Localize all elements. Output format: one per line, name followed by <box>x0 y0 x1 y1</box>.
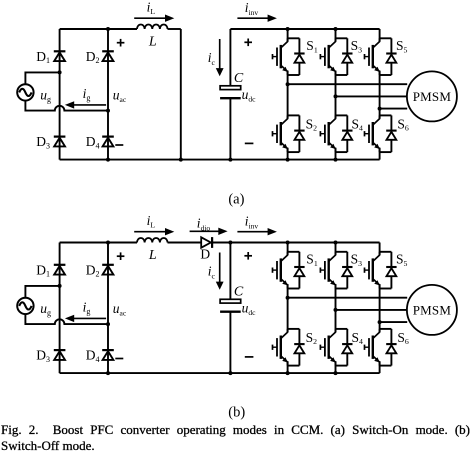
wire leg2 column top (a) <box>335 29 337 42</box>
wire leg2 column mid (a) <box>335 71 337 119</box>
svg-text:L: L <box>148 248 157 263</box>
transistor S2 IGBT with antiparallel diode (a) <box>273 115 305 152</box>
wire leg1 column bottom (a) <box>287 148 289 160</box>
node junction dot leg2 phase (b) <box>334 308 338 312</box>
node junction dot leg1 phase (b) <box>286 296 290 300</box>
wire leg1 column top (a) <box>287 29 289 42</box>
wire source bottom with hop over left column (a) <box>25 101 108 111</box>
node junction dot D4 bottom rail (a) <box>106 158 110 162</box>
wire bridge left column (a) <box>59 29 61 160</box>
node junction dot leg2 top rail (a) <box>334 27 338 31</box>
node junction dot D2 top rail (a) <box>106 27 110 31</box>
wire capacitor bottom lead (b) <box>229 312 231 373</box>
node junction dot leg1 top rail (a) <box>286 27 290 31</box>
svg-text:C: C <box>234 285 244 300</box>
wire bridge right column (b) <box>107 243 109 374</box>
wire leg1 column top (b) <box>287 243 289 256</box>
node junction dot leg2 phase (a) <box>334 94 338 98</box>
node junction dot source-top / left column (a) <box>58 70 62 74</box>
transistor S4 IGBT with antiparallel diode (a) <box>320 115 352 152</box>
current arrow i_inv (b) <box>237 231 268 233</box>
diode D1 (b) <box>54 264 66 266</box>
ac source u_g circuit (b) <box>17 298 33 314</box>
inductor L (a) <box>137 24 168 29</box>
wire leg1 column mid (b) <box>287 284 289 332</box>
wire phase b to PMSM (b) <box>336 309 408 311</box>
wire leg2 column bottom (b) <box>335 361 337 373</box>
transistor S6 IGBT with antiparallel diode (a) <box>365 115 397 152</box>
wire dc-link top rail corner (a) <box>229 29 231 86</box>
svg-text:D: D <box>200 246 210 261</box>
wire phase b to PMSM (a) <box>336 95 408 97</box>
node junction dot leg1 top rail (b) <box>286 241 290 245</box>
wire top rail diode to capacitor node (b) <box>212 242 230 244</box>
node junction dot leg2 top rail (b) <box>334 241 338 245</box>
node junction dot leg2 bottom rail (b) <box>334 371 338 375</box>
label u_ac minus (b) <box>115 358 123 360</box>
motor PMSM circle (b) <box>407 285 457 335</box>
current arrow i_L (b) <box>134 231 166 233</box>
wire leg2 column mid (b) <box>335 284 337 332</box>
inductor L (b) <box>137 238 168 243</box>
wire source top to bridge left column (a) <box>25 72 59 84</box>
transistor S3 IGBT with antiparallel diode (a) <box>320 38 352 75</box>
diode D4 (a) <box>102 136 114 138</box>
transistor S4 IGBT with antiparallel diode (b) <box>320 329 352 366</box>
wire boost-switch short vertical (a) <box>180 29 182 160</box>
diode D boost (b) <box>201 237 211 247</box>
node junction dot leg1 bottom rail (a) <box>286 158 290 162</box>
wire phase a to PMSM (b) <box>288 297 408 299</box>
svg-text:L: L <box>148 34 157 49</box>
wire leg1 column mid (a) <box>287 71 289 119</box>
wire leg2 column top (b) <box>335 243 337 256</box>
transistor S3 IGBT with antiparallel diode (b) <box>320 252 352 289</box>
wire leg3 column bottom (b) <box>379 361 381 373</box>
ac source u_g circuit (a) <box>17 84 33 100</box>
wire top rail bridge to inductor (a) <box>60 28 137 30</box>
label u_dc minus (a) <box>245 142 254 144</box>
node junction dot short / bottom rail (a) <box>179 158 183 162</box>
current arrow i_g (a) <box>73 104 106 106</box>
label u_dc minus (b) <box>245 356 254 358</box>
svg-text:(b): (b) <box>228 405 245 421</box>
node junction dot leg2 bottom rail (a) <box>334 158 338 162</box>
capacitor C bottom plate (a) <box>220 97 241 99</box>
wire source bottom with hop over left column (b) <box>25 314 108 324</box>
label u_dc plus (a) <box>244 41 252 43</box>
node junction dot capacitor / bottom rail (a) <box>228 158 232 162</box>
node junction dot leg3 phase (b) <box>378 320 382 324</box>
wire dc-link top rail (a) <box>230 28 379 30</box>
wire top rail inductor to short (a) <box>168 28 181 30</box>
diode D3 (b) <box>54 349 66 351</box>
diode D1 (a) <box>54 50 66 52</box>
wire capacitor top lead (b) <box>229 243 231 300</box>
node junction dot capacitor / bottom rail (b) <box>228 371 232 375</box>
capacitor C top plate (b) <box>220 299 241 303</box>
diode D3 (a) <box>54 136 66 138</box>
node junction dot D2 top rail (b) <box>106 241 110 245</box>
diode D2 (b) <box>102 264 114 266</box>
wire leg3 column mid (b) <box>379 284 381 332</box>
label u_dc plus (b) <box>244 255 252 257</box>
wire bottom rail (a) <box>60 159 380 161</box>
current arrow i_inv (a) <box>237 17 268 19</box>
svg-text:PMSM: PMSM <box>413 302 452 317</box>
transistor S6 IGBT with antiparallel diode (b) <box>365 329 397 366</box>
wire capacitor bottom lead (a) <box>229 98 231 159</box>
wire top rail bridge to inductor (b) <box>60 242 137 244</box>
node junction dot leg1 bottom rail (b) <box>286 371 290 375</box>
wire bridge right column (a) <box>107 29 109 160</box>
wire bridge left column (b) <box>59 243 61 374</box>
node junction dot leg3 phase (a) <box>378 107 382 111</box>
wire leg1 column bottom (b) <box>287 361 289 373</box>
current arrow i_dio (b) <box>190 230 220 232</box>
wire leg3 column top (b) <box>379 243 381 256</box>
wire phase c to PMSM (a) <box>380 108 408 110</box>
node junction dot D4 bottom rail (b) <box>106 371 110 375</box>
motor PMSM circle (a) <box>407 71 457 121</box>
node junction dot leg1 phase (a) <box>286 82 290 86</box>
transistor S5 IGBT with antiparallel diode (b) <box>365 252 397 289</box>
wire source top to bridge left column (b) <box>25 286 59 298</box>
label u_ac plus (b) <box>117 255 125 257</box>
wire leg2 column bottom (a) <box>335 148 337 160</box>
wire leg3 column bottom (a) <box>379 148 381 160</box>
wire top rail inductor to diode (b) <box>168 242 202 244</box>
svg-text:(a): (a) <box>228 192 244 208</box>
transistor S1 IGBT with antiparallel diode (b) <box>273 252 305 289</box>
label u_ac minus (a) <box>115 144 123 146</box>
svg-text:C: C <box>234 71 244 86</box>
current arrow i_L (a) <box>134 17 166 19</box>
wire dc-link top rail (b) <box>212 242 380 244</box>
transistor S2 IGBT with antiparallel diode (b) <box>273 329 305 366</box>
current arrow i_c (a) <box>219 39 221 69</box>
node junction dot capacitor / top rail (b) <box>228 241 232 245</box>
wire bottom rail (b) <box>60 372 380 374</box>
figure caption <box>1 422 470 454</box>
diode D2 (a) <box>102 50 114 52</box>
capacitor C top plate (a) <box>220 86 241 90</box>
current arrow i_c (b) <box>219 253 221 283</box>
node junction dot source-bottom / right column (b) <box>106 322 110 326</box>
wire phase a to PMSM (a) <box>288 83 408 85</box>
transistor S5 IGBT with antiparallel diode (a) <box>365 38 397 75</box>
wire leg3 column top (a) <box>379 29 381 42</box>
diode D4 (b) <box>102 349 114 351</box>
current arrow i_g (b) <box>73 317 106 319</box>
node junction dot source-bottom / right column (a) <box>106 109 110 113</box>
transistor S1 IGBT with antiparallel diode (a) <box>273 38 305 75</box>
node junction dot source-top / left column (b) <box>58 284 62 288</box>
wire phase c to PMSM (b) <box>380 321 408 323</box>
label u_ac plus (a) <box>117 42 125 44</box>
wire leg3 column mid (a) <box>379 71 381 119</box>
svg-text:PMSM: PMSM <box>413 89 452 104</box>
capacitor C bottom plate (b) <box>220 311 241 313</box>
